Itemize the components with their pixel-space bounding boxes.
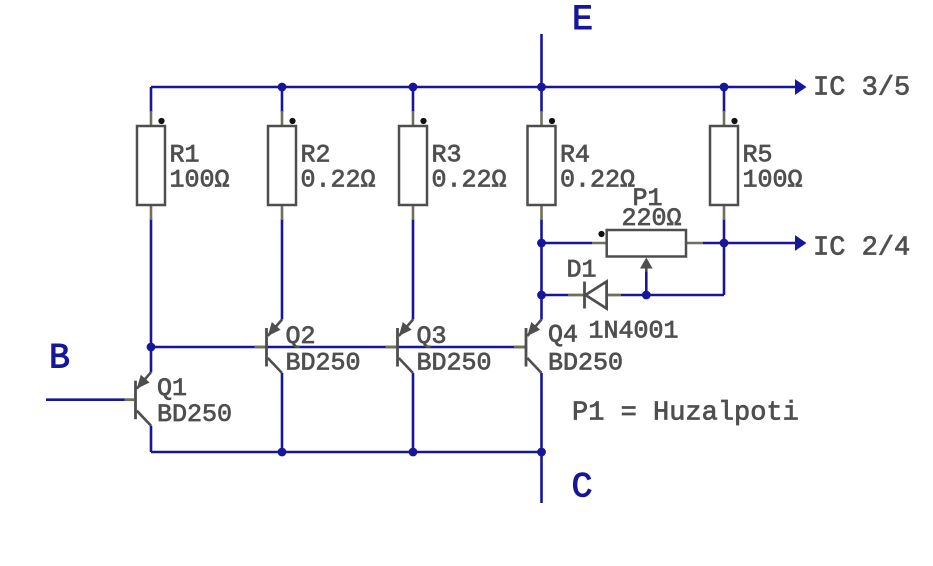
wire Q3 collector bbox=[412, 373, 415, 452]
wire diode row right bbox=[621, 294, 724, 297]
wire Q4 collector bbox=[540, 373, 543, 452]
wire R4 bottom through nodes to Q4 emitter bbox=[540, 219, 543, 320]
node bottom rail C bbox=[537, 448, 546, 457]
node base rail at R1/Q1 bbox=[147, 343, 156, 352]
svg-text:IC 3/5: IC 3/5 bbox=[813, 74, 910, 104]
svg-text:220Ω: 220Ω bbox=[622, 204, 682, 233]
node bus-R5 bbox=[720, 83, 729, 92]
wire R5 top lead bbox=[723, 87, 726, 112]
svg-text:E: E bbox=[572, 0, 593, 40]
svg-text:1N4001: 1N4001 bbox=[589, 317, 679, 346]
wire Q1 collector down bbox=[150, 426, 153, 452]
svg-text:100Ω: 100Ω bbox=[170, 166, 230, 195]
transistor Q3 bbox=[386, 320, 492, 378]
svg-text:C: C bbox=[572, 468, 593, 508]
wire R1 bottom to base node and Q1 emitter bbox=[150, 219, 153, 372]
resistor R3 bbox=[399, 111, 507, 220]
wire P1 right drop to diode row bbox=[723, 243, 726, 295]
resistor R2 bbox=[268, 111, 376, 220]
node diode row left bbox=[537, 291, 546, 300]
wire top bus E rail bbox=[151, 86, 795, 89]
wire diode row left stub bbox=[542, 294, 569, 297]
svg-text:BD250: BD250 bbox=[157, 400, 232, 429]
resistor R1 bbox=[137, 111, 230, 220]
svg-text:Q1: Q1 bbox=[157, 374, 187, 403]
node bus-E-R4 bbox=[537, 83, 546, 92]
svg-text:BD250: BD250 bbox=[417, 349, 492, 378]
wire R2 bottom / Q2 emitter bbox=[281, 219, 284, 320]
wire B lead bbox=[46, 398, 125, 401]
svg-text:BD250: BD250 bbox=[548, 349, 623, 378]
wire Q2 collector bbox=[281, 373, 284, 452]
transistor Q2 bbox=[255, 320, 361, 378]
arrow to IC 3/5 bbox=[795, 79, 807, 95]
resistor R4 bbox=[528, 111, 636, 220]
wire R5 bottom lead bbox=[723, 219, 726, 243]
wire R3 bottom / Q3 emitter bbox=[412, 219, 415, 320]
wire R4 top lead bbox=[540, 87, 543, 112]
node bus-R2 bbox=[278, 83, 287, 92]
svg-text:Q3: Q3 bbox=[417, 322, 447, 351]
wire C stem bbox=[540, 452, 543, 503]
node bottom rail Q2 bbox=[278, 448, 287, 457]
svg-text:Q2: Q2 bbox=[286, 322, 316, 351]
wire base rail bbox=[151, 346, 526, 349]
svg-text:0.22Ω: 0.22Ω bbox=[301, 166, 376, 195]
wire R1 top lead bbox=[150, 87, 153, 112]
arrow to IC 2/4 bbox=[795, 235, 807, 251]
wire bottom C rail bbox=[151, 451, 542, 454]
wire IC 2/4 row left bbox=[542, 242, 593, 245]
potentiometer P1 bbox=[592, 184, 703, 272]
svg-text:Q4: Q4 bbox=[548, 321, 578, 350]
node bottom rail Q3 bbox=[409, 448, 418, 457]
svg-text:D1: D1 bbox=[567, 256, 597, 285]
svg-text:P1 = Huzalpoti: P1 = Huzalpoti bbox=[572, 399, 799, 429]
node wiper to diode row bbox=[642, 291, 651, 300]
node bus-R3 bbox=[409, 83, 418, 92]
diode D1 bbox=[567, 256, 679, 346]
svg-text:B: B bbox=[49, 339, 70, 379]
wire E stem bbox=[540, 34, 543, 87]
wire R2 top lead bbox=[281, 87, 284, 112]
wire R3 top lead bbox=[412, 87, 415, 112]
svg-text:IC 2/4: IC 2/4 bbox=[813, 234, 910, 264]
svg-text:0.22Ω: 0.22Ω bbox=[560, 166, 635, 195]
svg-text:100Ω: 100Ω bbox=[743, 166, 803, 195]
transistor Q4 bbox=[514, 320, 623, 378]
wire P1 wiper drop bbox=[645, 271, 648, 295]
wire IC 2/4 row right bbox=[703, 242, 795, 245]
node IC 2/4 left (R4) bbox=[537, 239, 546, 248]
svg-text:BD250: BD250 bbox=[286, 349, 361, 378]
transistor Q1 bbox=[125, 372, 233, 429]
svg-text:0.22Ω: 0.22Ω bbox=[432, 166, 507, 195]
node IC 2/4 right (R5/P1) bbox=[720, 239, 729, 248]
resistor R5 bbox=[710, 111, 803, 220]
